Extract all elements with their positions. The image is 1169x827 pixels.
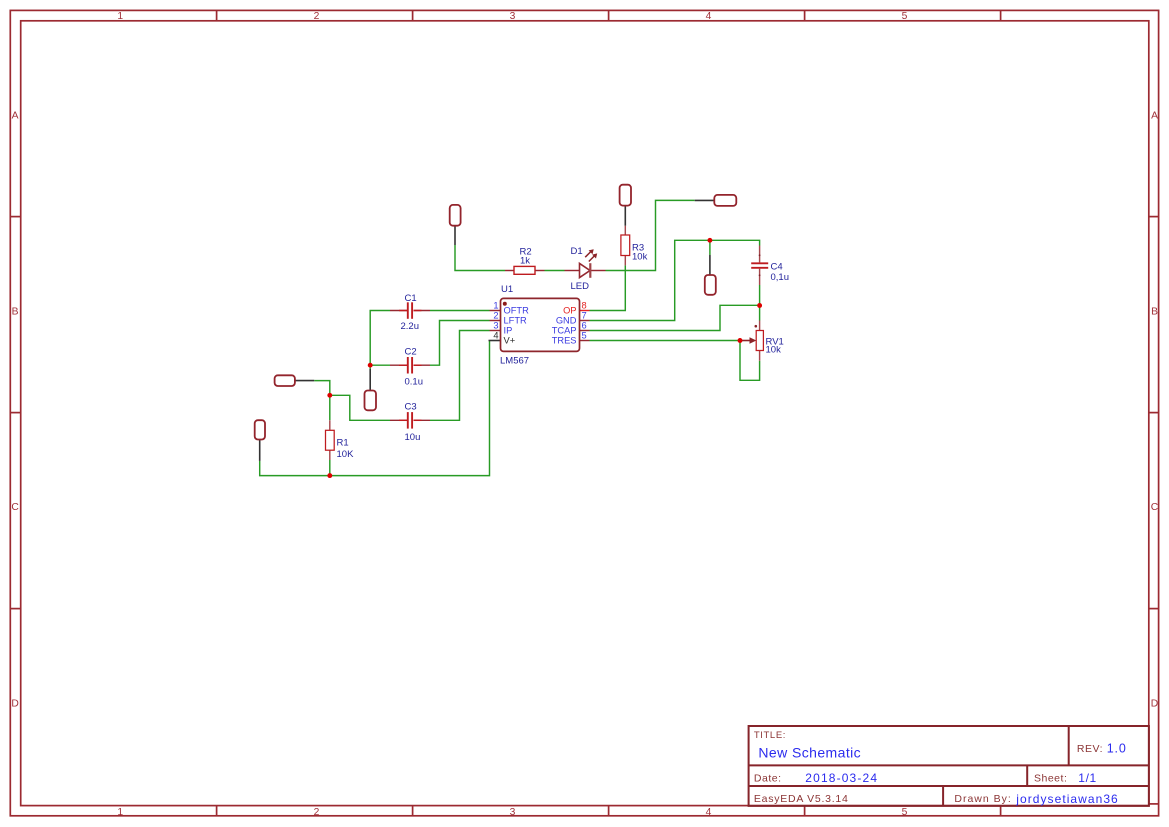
black connector leads bbox=[260, 200, 715, 461]
net port B (above R3) bbox=[620, 185, 631, 206]
net port D (below GND dot) bbox=[705, 275, 716, 295]
resistor R3 leads bbox=[624, 226, 626, 235]
wire pin8 to R3 bbox=[590, 265, 626, 310]
svg-text:REV:: REV: bbox=[1077, 743, 1103, 755]
svg-text:3: 3 bbox=[493, 320, 498, 330]
svg-text:LM567: LM567 bbox=[500, 356, 529, 367]
wire RV1 top bbox=[759, 306, 761, 321]
svg-text:C4: C4 bbox=[771, 262, 783, 273]
potentiometer RV1 leads bbox=[759, 321, 761, 331]
svg-text:V+: V+ bbox=[504, 336, 516, 346]
svg-text:8: 8 bbox=[582, 300, 587, 310]
op-amp U1 LM567 body bbox=[501, 298, 580, 351]
net port F (below C2 dot) bbox=[365, 391, 377, 411]
wire pin6 TCAP bbox=[590, 305, 760, 330]
svg-text:3: 3 bbox=[510, 807, 516, 818]
diode D1 leads bbox=[565, 270, 580, 272]
svg-text:TCAP: TCAP bbox=[552, 326, 577, 336]
svg-text:5: 5 bbox=[582, 330, 587, 340]
svg-text:1: 1 bbox=[117, 807, 123, 818]
svg-text:1k: 1k bbox=[520, 256, 530, 267]
svg-text:LED: LED bbox=[571, 281, 590, 292]
wire pin7 GND net bbox=[590, 240, 760, 320]
pin 4 U1 (black) bbox=[489, 340, 501, 342]
capacitor C1 leads bbox=[390, 311, 430, 421]
wire flag E lead bbox=[295, 380, 314, 382]
wire flag C lead bbox=[695, 199, 715, 201]
pin 1 U1 bbox=[490, 310, 501, 312]
pin 5 U1 bbox=[580, 340, 590, 342]
svg-text:jordysetiawan36: jordysetiawan36 bbox=[1015, 792, 1118, 806]
capacitor C4 leads bbox=[759, 246, 761, 263]
node C2/C1 junction bbox=[368, 363, 373, 368]
wire net pin2 / C2 bbox=[430, 321, 490, 366]
wire R1 top / flag E bbox=[314, 381, 330, 421]
resistor R1 bbox=[326, 430, 335, 450]
svg-text:D1: D1 bbox=[571, 246, 583, 257]
capacitor C4 pin end dots bbox=[759, 254, 761, 256]
svg-text:Drawn By:: Drawn By: bbox=[954, 793, 1011, 805]
svg-text:TRES: TRES bbox=[552, 336, 577, 346]
svg-text:LFTR: LFTR bbox=[504, 316, 528, 326]
capacitor C1 bbox=[408, 302, 412, 319]
wire flag G lead bbox=[259, 440, 261, 461]
svg-text:5: 5 bbox=[902, 807, 908, 818]
svg-text:10k: 10k bbox=[632, 252, 648, 263]
svg-text:2.2u: 2.2u bbox=[401, 321, 420, 332]
capacitor C3 bbox=[408, 412, 412, 429]
svg-text:C: C bbox=[11, 502, 19, 513]
svg-text:OFTR: OFTR bbox=[504, 306, 530, 316]
net port E (left horizontal) bbox=[275, 375, 295, 386]
wire flag A lead bbox=[454, 226, 456, 245]
net port C (top-right horizontal) bbox=[714, 195, 736, 206]
svg-text:D: D bbox=[11, 699, 18, 710]
svg-text:1.0: 1.0 bbox=[1107, 742, 1127, 756]
svg-text:B: B bbox=[12, 306, 19, 317]
capacitor C4 bbox=[751, 263, 768, 268]
svg-text:GND: GND bbox=[556, 316, 577, 326]
node C4/RV1 junction bbox=[757, 303, 762, 308]
svg-text:0,1u: 0,1u bbox=[771, 272, 790, 283]
svg-text:EasyEDA V5.3.14: EasyEDA V5.3.14 bbox=[754, 793, 849, 805]
wire GND stub to flag D bbox=[709, 240, 711, 255]
svg-text:6: 6 bbox=[582, 320, 587, 330]
title block bbox=[749, 726, 1149, 806]
svg-text:4: 4 bbox=[706, 11, 712, 22]
svg-text:OP: OP bbox=[563, 306, 576, 316]
net port A (top-left) bbox=[450, 205, 461, 226]
capacitor C2 leads bbox=[390, 364, 407, 366]
svg-text:5: 5 bbox=[902, 11, 908, 22]
svg-text:3: 3 bbox=[510, 11, 516, 22]
pin 3 U1 bbox=[490, 330, 501, 332]
svg-text:U1: U1 bbox=[501, 284, 513, 295]
node TRES junction bbox=[738, 338, 743, 343]
wire flag D lead bbox=[709, 255, 711, 275]
svg-text:A: A bbox=[12, 110, 19, 121]
pin 2 U1 bbox=[490, 320, 501, 322]
svg-text:1: 1 bbox=[117, 11, 123, 22]
diode D1 LED bbox=[580, 249, 598, 278]
wire R1 bottom bbox=[329, 460, 331, 476]
svg-text:2: 2 bbox=[314, 807, 320, 818]
svg-text:IP: IP bbox=[504, 326, 513, 336]
node GND junction bbox=[707, 238, 712, 243]
svg-text:4: 4 bbox=[706, 807, 712, 818]
svg-text:Sheet:: Sheet: bbox=[1034, 773, 1067, 785]
svg-text:1: 1 bbox=[493, 300, 498, 310]
svg-text:2: 2 bbox=[493, 310, 498, 320]
svg-text:2: 2 bbox=[314, 11, 320, 22]
wire R2 to D1 bbox=[545, 270, 565, 272]
pin 7 U1 bbox=[580, 320, 590, 322]
capacitor C2 bbox=[408, 357, 412, 374]
wire LED net left bbox=[455, 245, 505, 271]
wire net V+ bottom rail bbox=[260, 341, 490, 476]
svg-text:D: D bbox=[1151, 699, 1158, 710]
svg-text:7: 7 bbox=[582, 310, 587, 320]
pin 6 U1 bbox=[580, 330, 590, 332]
wire pin5 TRES bbox=[590, 340, 741, 342]
net port G (bottom-left) bbox=[255, 420, 265, 439]
svg-text:TITLE:: TITLE: bbox=[754, 730, 786, 741]
junction dots bbox=[327, 238, 762, 478]
svg-text:0.1u: 0.1u bbox=[405, 376, 424, 387]
svg-text:10K: 10K bbox=[337, 449, 355, 460]
svg-text:2018-03-24: 2018-03-24 bbox=[805, 771, 878, 785]
svg-text:4: 4 bbox=[493, 330, 498, 340]
pin 8 U1 (red) bbox=[580, 310, 590, 312]
potentiometer RV1 bbox=[740, 325, 763, 351]
svg-text:1/1: 1/1 bbox=[1078, 771, 1096, 785]
svg-text:10k: 10k bbox=[766, 345, 782, 356]
wire dot to flag F stub bbox=[369, 365, 371, 369]
svg-text:C2: C2 bbox=[405, 347, 417, 358]
resistor R2 leads bbox=[505, 270, 515, 272]
svg-text:New Schematic: New Schematic bbox=[758, 745, 861, 761]
wire RV1 bottom loop bbox=[740, 341, 760, 381]
resistor R2 bbox=[514, 266, 535, 274]
svg-text:10u: 10u bbox=[405, 432, 421, 443]
capacitor C3 leads bbox=[390, 419, 407, 421]
wire D1 to flag C bbox=[606, 200, 695, 270]
svg-text:C3: C3 bbox=[405, 401, 417, 412]
wire net pin3 / C3 bbox=[430, 331, 490, 421]
resistor R1 leads bbox=[329, 420, 331, 430]
svg-text:C1: C1 bbox=[405, 293, 417, 304]
wire C4 bottom bbox=[759, 285, 761, 306]
svg-text:Date:: Date: bbox=[754, 773, 782, 785]
resistor R3 bbox=[621, 235, 630, 256]
wire flag B lead bbox=[624, 206, 626, 226]
svg-text:B: B bbox=[1151, 306, 1158, 317]
wire flag F lead bbox=[369, 369, 371, 391]
node R1 bottom junction bbox=[327, 473, 332, 478]
wire net pin1 / C1 bbox=[430, 310, 490, 312]
svg-text:A: A bbox=[1151, 110, 1158, 121]
node R1 top junction bbox=[327, 393, 332, 398]
svg-text:C: C bbox=[1151, 502, 1159, 513]
svg-text:R1: R1 bbox=[337, 438, 349, 449]
